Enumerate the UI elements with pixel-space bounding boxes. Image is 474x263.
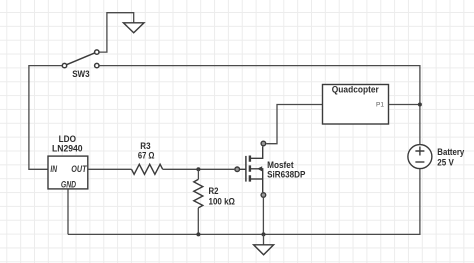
resistor R2 — [194, 179, 235, 207]
mosfet Q1 SiR638DP — [240, 146, 305, 192]
wire — [68, 168, 420, 234]
svg-text:P1: P1 — [376, 102, 384, 109]
svg-text:25 V: 25 V — [437, 157, 454, 167]
resistor R3 — [132, 141, 163, 175]
ground — [123, 23, 144, 33]
node drain terminal — [261, 141, 266, 146]
junction — [418, 103, 422, 107]
switch SW3 — [62, 50, 99, 79]
battery V1 — [408, 145, 464, 169]
wire — [99, 13, 134, 52]
wire — [266, 105, 322, 144]
wire — [197, 169, 199, 179]
wire — [29, 66, 62, 170]
wire — [262, 198, 264, 235]
LDO U1 LN2940 — [48, 134, 88, 190]
junction — [196, 232, 200, 236]
svg-text:Mosfet: Mosfet — [267, 160, 294, 170]
svg-text:67 Ω: 67 Ω — [138, 150, 155, 160]
node gate terminal — [235, 167, 240, 172]
svg-text:Quadcopter: Quadcopter — [332, 84, 379, 94]
svg-text:IN: IN — [50, 164, 57, 174]
svg-text:LDO: LDO — [59, 134, 76, 144]
svg-text:100 kΩ: 100 kΩ — [209, 196, 236, 206]
junction — [196, 167, 200, 171]
svg-text:R2: R2 — [209, 186, 219, 196]
svg-text:SiR638DP: SiR638DP — [267, 170, 305, 180]
wire — [99, 66, 420, 145]
svg-text:Battery: Battery — [437, 147, 464, 157]
svg-text:SW3: SW3 — [72, 69, 89, 79]
wire — [163, 168, 235, 170]
svg-text:GND: GND — [61, 179, 77, 189]
ground — [254, 234, 274, 254]
junction — [262, 232, 266, 236]
svg-text:OUT: OUT — [71, 164, 87, 174]
wire — [389, 104, 420, 106]
quadcopter module P1 — [323, 84, 389, 124]
svg-text:LN2940: LN2940 — [52, 144, 83, 154]
wire — [67, 189, 69, 235]
wire — [197, 208, 199, 235]
svg-text:R3: R3 — [140, 141, 150, 151]
node source terminal — [261, 193, 266, 198]
wire — [88, 168, 132, 170]
